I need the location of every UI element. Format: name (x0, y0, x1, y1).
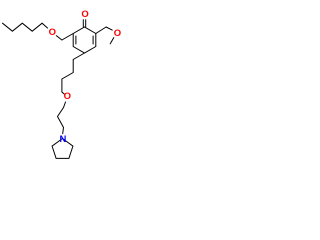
wire pyrrolidine ring (52, 139, 73, 159)
svg-text:O: O (114, 28, 121, 39)
wire descending chain from ring C4 to ether O3 (62, 53, 85, 94)
wire bond ring C2 to CH2 right (96, 27, 106, 34)
wire bond CH2 right to ether O2 (106, 27, 112, 30)
wire pentyl chain C5-C4-C3-C2-C1 to ether O1 (3, 23, 48, 31)
wire chain ether O3 down to amine N (58, 102, 66, 134)
wire carbonyl C=O double bond line 1 (82, 20, 84, 27)
wire carbonyl C=O double bond line 2 (85, 20, 87, 27)
svg-text:O: O (64, 91, 71, 102)
wire bond CH2 linker to ring C6 (62, 34, 73, 41)
svg-text:N: N (60, 134, 67, 145)
wire bond ether O2 to methyl (110, 38, 114, 44)
wire cyclohexadienone ring (73, 27, 96, 53)
wire bond O1 to CH2 linker (56, 36, 62, 40)
svg-text:O: O (49, 27, 56, 38)
wire ring inner double bond left C5=C6 (75, 36, 77, 44)
svg-text:O: O (81, 9, 88, 20)
wire ring inner double bond right C2=C3 (92, 36, 94, 44)
